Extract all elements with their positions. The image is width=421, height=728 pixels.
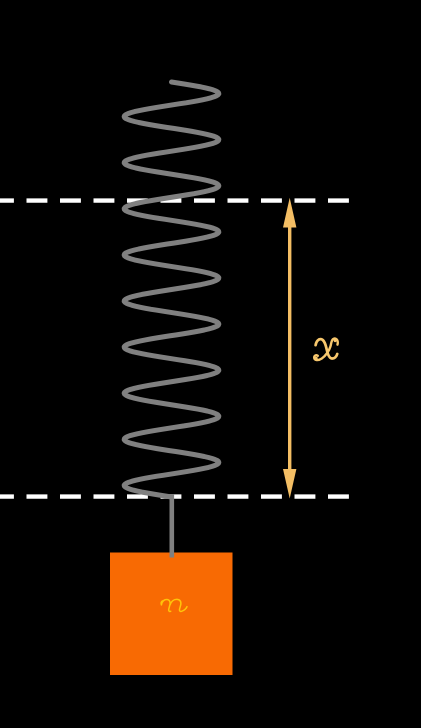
arrowhead down — [283, 469, 296, 499]
wire rod from spring to mass — [170, 494, 175, 558]
dashed line bottom (stretched position reference) — [0, 494, 349, 498]
label m on block — [161, 599, 187, 611]
extension arrow shaft — [288, 225, 291, 471]
label x (extension), computer-modern style italic — [314, 339, 338, 360]
arrowhead up — [283, 198, 296, 228]
dashed line top (natural length reference) — [0, 198, 349, 202]
mass block — [110, 553, 233, 676]
spring coil — [124, 82, 219, 497]
